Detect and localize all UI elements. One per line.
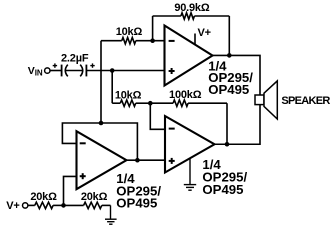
svg-text:90.9kΩ: 90.9kΩ [174,2,210,14]
svg-text:V+: V+ [6,200,19,212]
node B junction [148,101,153,106]
power V+ pin op-amp U1 [194,34,196,45]
wire U2 output to speaker bottom [215,105,261,145]
wire U3 output to U2 noninverting input [127,159,166,161]
wire VIN terminal to capacitor [50,70,61,72]
svg-text:10kΩ: 10kΩ [115,90,142,102]
node U3 output junction [135,158,140,163]
svg-text:20kΩ: 20kΩ [30,191,57,203]
node A junction [110,68,115,73]
wire U3 feedback loop [62,123,137,160]
wire midpoint up to U3 noninverting input [64,176,77,205]
op-amp U3 [77,131,127,189]
wire capacitor to op-amp U1 noninverting input [86,70,164,72]
input terminal VIN [45,68,50,73]
svg-text:OP495: OP495 [208,82,249,97]
resistor R1 10k [101,38,165,44]
node U1 output junction [227,53,232,58]
op-amp U1 [165,26,213,86]
resistor R4 90.9k feedback [153,13,230,19]
wire node A down to resistor R2 [111,71,113,104]
capacitor C1 2.2uF back-to-back electrolytic [53,63,95,76]
wire junction up to feedback resistor R4 [152,16,154,41]
terminal V+ supply [23,203,28,208]
speaker LS1 [255,81,277,119]
wire feedback down to U1 output [228,16,230,55]
node bias rail junction [99,121,104,126]
svg-text:100kΩ: 100kΩ [169,89,202,101]
resistor R5 20k [28,202,63,208]
wire node B down to U2 inverting input [150,103,165,129]
svg-text:SPEAKER: SPEAKER [281,95,330,107]
ground op-amp U2 V- pin [184,159,196,190]
svg-text:2.2µF: 2.2µF [61,52,89,64]
svg-text:V+: V+ [198,27,211,39]
wire U1 output to speaker top [213,55,261,95]
svg-text:OP495: OP495 [116,196,157,211]
resistor R6 20k [64,202,111,208]
svg-text:OP495: OP495 [202,182,243,197]
svg-text:20kΩ: 20kΩ [81,191,108,203]
op-amp U2 [165,116,215,173]
wire R3 down to U2 output [226,103,228,144]
svg-text:10kΩ: 10kΩ [116,26,143,38]
node U2 output junction [225,142,230,147]
node U1 inverting input junction [150,38,155,43]
wire bias rail [100,41,102,123]
resistor R2 10k [112,100,150,106]
ground divider [105,205,117,224]
node divider midpoint [61,203,66,208]
resistor R3 100k [150,100,227,106]
